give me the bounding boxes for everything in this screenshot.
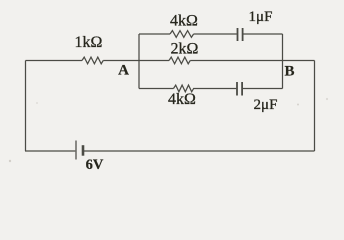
capacitor C1 1μF right plate: [242, 28, 244, 41]
svg-text:1kΩ: 1kΩ: [75, 34, 103, 51]
wire: top branch middle segment: [194, 33, 237, 35]
wire: middle branch left segment (A to 2kΩ): [139, 60, 169, 62]
wire: middle branch right segment: [190, 60, 282, 62]
wire: box right vertical: [282, 34, 284, 89]
faint scan speck: [326, 98, 328, 100]
svg-text:2kΩ: 2kΩ: [171, 41, 199, 58]
battery V1 long plate: [75, 141, 77, 160]
svg-text:A: A: [118, 63, 129, 79]
wire: bottom branch middle segment: [193, 88, 236, 90]
wire: bottom branch right segment: [243, 88, 283, 90]
wire: top left segment: [26, 60, 83, 62]
capacitor C2 2μF right plate: [241, 82, 243, 96]
resistor R1 1kΩ zigzag: [82, 57, 103, 64]
wire: bottom right (battery to right corner): [84, 150, 315, 152]
svg-text:1μF: 1μF: [249, 9, 273, 25]
faint scan speck: [297, 104, 299, 106]
wire: 1kΩ to node A / box left: [103, 60, 139, 62]
wire: outer left vertical: [25, 61, 27, 152]
resistor R2 4kΩ zigzag (top): [170, 31, 194, 38]
wire: box left vertical: [138, 34, 140, 89]
wire: outer right vertical: [314, 61, 316, 152]
faint scan speck: [36, 102, 38, 104]
wire: node B extension to outer right: [283, 60, 315, 62]
faint scan speck: [9, 160, 11, 162]
resistor R3 2kΩ zigzag: [169, 57, 190, 64]
wire: top branch left segment: [139, 33, 170, 35]
resistor R4 4kΩ zigzag (bottom): [174, 85, 194, 92]
wire: bottom left (to battery): [25, 150, 75, 152]
svg-text:4kΩ: 4kΩ: [170, 13, 198, 30]
svg-text:2μF: 2μF: [254, 97, 278, 113]
svg-text:B: B: [284, 64, 294, 80]
battery V1 short plate: [82, 145, 85, 156]
capacitor C1 1μF left plate: [237, 28, 239, 41]
wire: top branch right segment: [243, 33, 282, 35]
wire: bottom branch left segment: [139, 88, 174, 90]
svg-text:4kΩ: 4kΩ: [168, 91, 196, 108]
capacitor C2 2μF left plate: [236, 82, 238, 96]
svg-text:6V: 6V: [86, 157, 104, 173]
